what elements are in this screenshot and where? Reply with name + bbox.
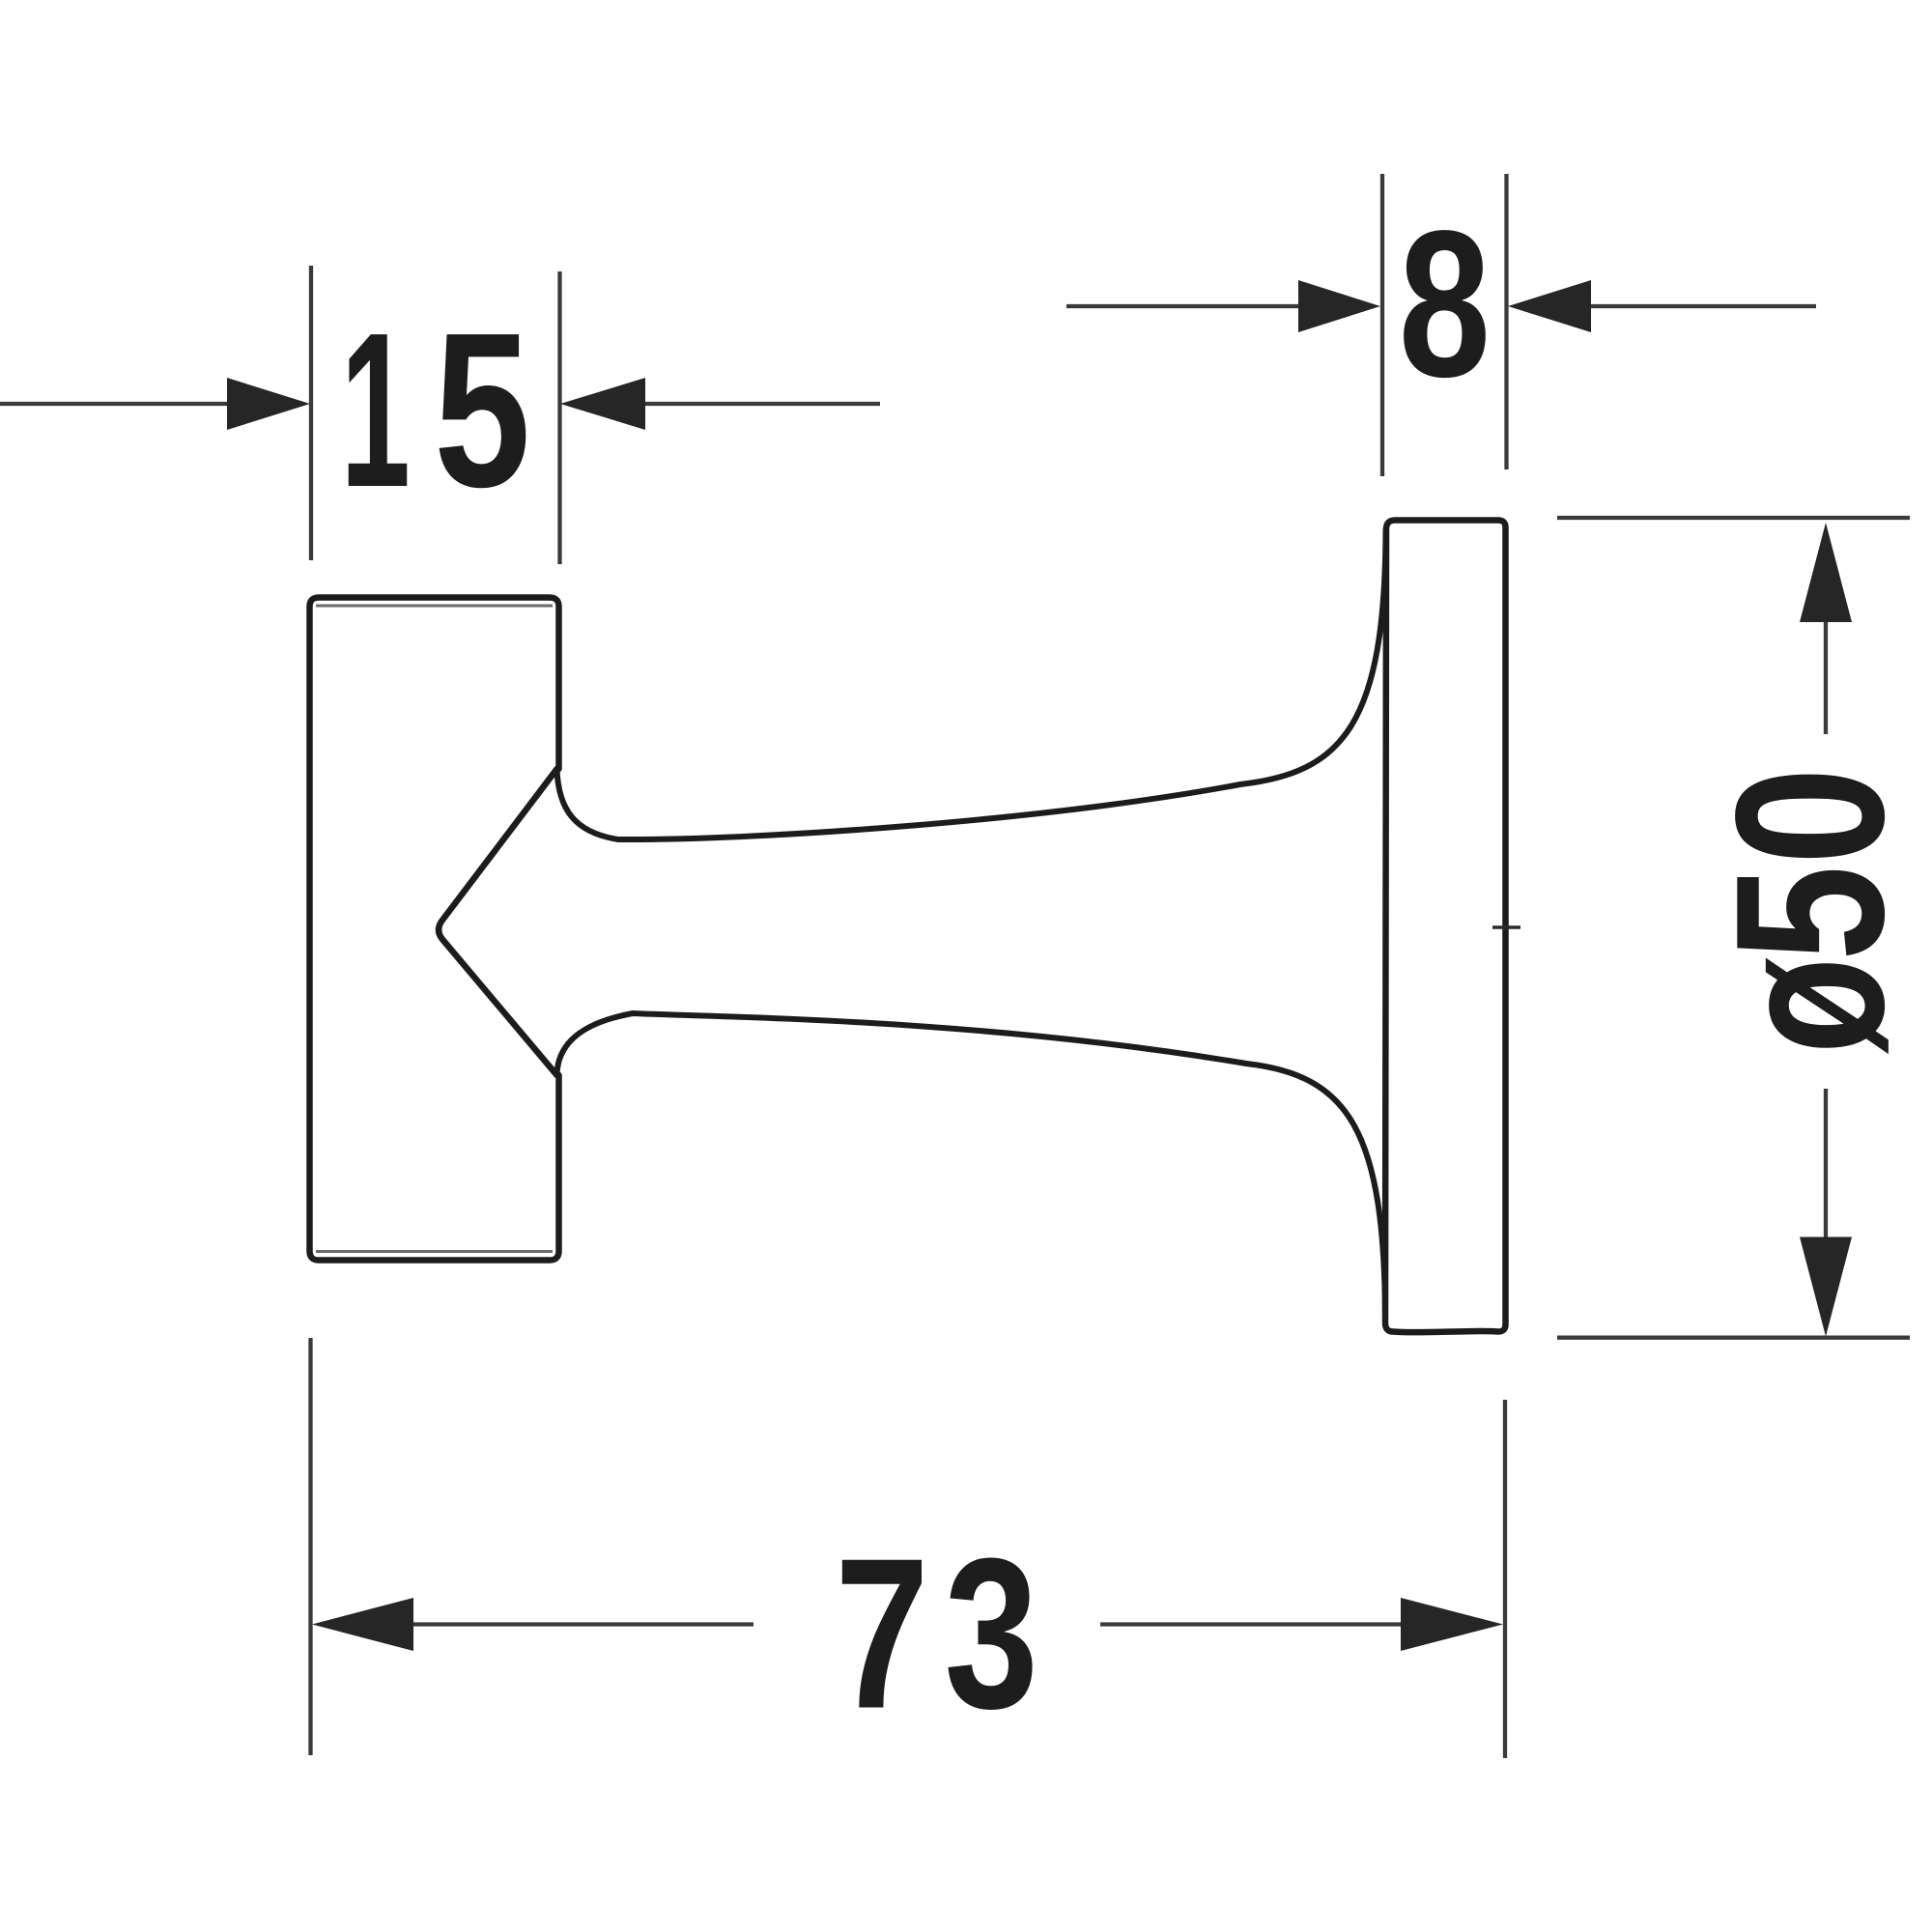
svg-text:1: 1: [341, 288, 411, 533]
svg-text:5: 5: [1692, 866, 1928, 961]
svg-text:7: 7: [835, 1515, 928, 1754]
arrow down of ø50: [1800, 1237, 1852, 1337]
dimension line left part: [0, 402, 232, 406]
svg-text:8: 8: [1399, 187, 1491, 420]
center tick on wall plate: [1492, 925, 1520, 929]
label 15: [341, 288, 411, 533]
label 8: [1399, 187, 1491, 420]
dimension line bottom part: [1824, 1089, 1828, 1239]
arrow left of 73: [312, 1598, 413, 1651]
extension line right: [1503, 1400, 1507, 1758]
extension line right: [1504, 174, 1508, 469]
stem top profile: fillet, taper, flare into wall plate: [557, 529, 1386, 839]
dimension line top part: [1824, 618, 1828, 734]
label 73: [835, 1515, 928, 1754]
dimension line left part: [1066, 304, 1304, 308]
dimension line right part: [1100, 1622, 1405, 1626]
extension line left: [308, 1338, 312, 1755]
arrow left of 15: [227, 378, 310, 430]
knob inner top edge line: [316, 605, 553, 608]
extension line left: [309, 266, 313, 560]
stem bottom profile: fillet, taper, flare into wall plate: [557, 1013, 1386, 1323]
extension line right: [557, 271, 561, 564]
arrow up of ø50: [1800, 523, 1852, 622]
label ø50 (rotated): [1691, 767, 1928, 865]
arrow right of 73: [1401, 1598, 1503, 1651]
arrow right of 8: [1508, 280, 1591, 332]
svg-text:ø: ø: [1692, 957, 1928, 1054]
wall plate (right): [1385, 521, 1506, 1333]
extension line top: [1557, 516, 1910, 520]
arrow left of 8: [1298, 280, 1380, 332]
svg-text:3: 3: [944, 1515, 1037, 1754]
extension line left: [1380, 174, 1384, 476]
knob face plate (left rectangle outline): [310, 598, 559, 1261]
extension line bottom: [1557, 1336, 1910, 1340]
dimension line right part: [1588, 304, 1816, 308]
arrow right of 15: [560, 378, 645, 430]
knob inner bottom edge line: [316, 1250, 553, 1253]
svg-text:5: 5: [434, 287, 530, 533]
dimension line left part: [411, 1622, 753, 1626]
dimension line right part: [643, 402, 880, 406]
cone (arrow shape of hook): [439, 769, 556, 1075]
svg-text:0: 0: [1691, 767, 1928, 865]
